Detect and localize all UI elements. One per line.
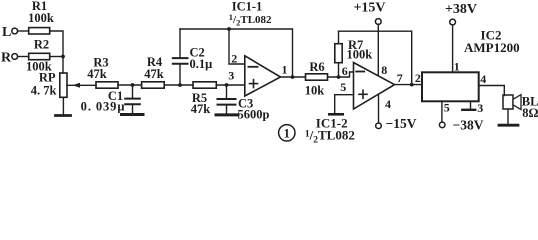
- svg-text:1: 1: [282, 62, 288, 76]
- svg-text:IC1-1: IC1-1: [232, 0, 263, 14]
- +38V terminal at pin 1: [452, 25, 454, 72]
- svg-text:1/2TL082: 1/2TL082: [305, 127, 355, 143]
- junction on rail: [227, 27, 231, 31]
- speaker BL: [503, 95, 513, 109]
- op-amp U1 (IC1-1): [245, 56, 281, 96]
- node B junction: [131, 83, 135, 87]
- node C junction: [178, 83, 182, 87]
- wire U2 output to IC2: [395, 84, 423, 86]
- svg-text:+38V: +38V: [445, 2, 477, 17]
- svg-text:5600p: 5600p: [238, 108, 270, 122]
- node A junction: [61, 55, 65, 59]
- wire R3 to node B: [118, 84, 142, 86]
- wire R5 to op-amp pin 3: [216, 84, 245, 86]
- svg-text:10k: 10k: [305, 83, 325, 97]
- ground at pin 5: [335, 95, 354, 113]
- svg-text:100k: 100k: [28, 11, 54, 25]
- circled figure number 1: [279, 125, 295, 141]
- node D junction: [225, 83, 229, 87]
- resistor R3: [96, 82, 118, 88]
- svg-text:4. 7k: 4. 7k: [31, 83, 57, 97]
- wire IC2 pin 4 to speaker: [479, 86, 505, 96]
- junction R7 node: [337, 75, 341, 79]
- svg-text:8Ω: 8Ω: [522, 106, 538, 120]
- resistor R2: [29, 53, 50, 59]
- wire R6 to pin 6: [328, 72, 354, 77]
- svg-text:5: 5: [340, 80, 346, 94]
- ground under C3: [216, 113, 238, 116]
- wire node A to RP: [62, 57, 64, 74]
- svg-text:47k: 47k: [191, 102, 211, 116]
- potentiometer RP: [60, 73, 67, 97]
- wire R to R2: [18, 56, 29, 58]
- svg-text:L: L: [2, 25, 11, 40]
- svg-text:3: 3: [228, 68, 234, 82]
- svg-text:4: 4: [480, 72, 486, 86]
- capacitor C1: [132, 85, 134, 98]
- resistor R6: [306, 74, 328, 80]
- svg-text:−15V: −15V: [386, 116, 417, 131]
- svg-text:100k: 100k: [347, 48, 373, 62]
- ground under speaker: [507, 109, 509, 123]
- capacitor C3: [226, 85, 228, 98]
- svg-text:3: 3: [477, 101, 483, 115]
- svg-text:1: 1: [284, 127, 290, 141]
- wire R1 to node A: [50, 31, 63, 57]
- svg-text:5: 5: [444, 101, 450, 115]
- op-amp U2 (IC1-2): [354, 63, 395, 110]
- svg-text:R6: R6: [309, 60, 324, 74]
- svg-text:2: 2: [415, 71, 421, 85]
- IC2 AMP1200 box: [422, 72, 479, 101]
- RP wiper arrow: [67, 84, 96, 86]
- wire L to R1: [18, 30, 29, 32]
- svg-text:R2: R2: [34, 38, 49, 52]
- resistor R5: [193, 82, 216, 88]
- wire R2 to node A: [50, 56, 63, 58]
- svg-text:4: 4: [385, 97, 391, 111]
- svg-text:6: 6: [342, 64, 348, 78]
- ground at pin 3: [470, 101, 472, 108]
- junction output node: [291, 75, 295, 79]
- svg-text:47k: 47k: [144, 67, 164, 81]
- -38V terminal at pin 5: [441, 101, 443, 122]
- -15V terminal at pin 4: [378, 95, 380, 124]
- ground under RP: [62, 97, 64, 114]
- wire U1 output to R6: [281, 76, 306, 78]
- svg-text:AMP1200: AMP1200: [464, 40, 520, 55]
- resistor R7: [338, 63, 340, 77]
- ground under C1: [122, 113, 144, 116]
- svg-text:8: 8: [381, 63, 387, 77]
- svg-text:1/2TL082: 1/2TL082: [229, 12, 272, 28]
- resistor R1: [29, 28, 50, 34]
- svg-text:2: 2: [231, 52, 237, 66]
- wire R4 to node C: [164, 84, 193, 86]
- junction feedback/output: [410, 83, 414, 87]
- resistor R4: [142, 82, 165, 88]
- feedback rail of U2: [339, 31, 412, 84]
- wire rail to pin 2: [229, 29, 245, 64]
- capacitor C2: [179, 65, 181, 85]
- svg-text:+15V: +15V: [353, 1, 385, 16]
- wire +15V to pin 8: [377, 24, 379, 76]
- svg-text:−38V: −38V: [453, 117, 484, 132]
- svg-text:R: R: [1, 50, 12, 65]
- svg-text:0. 039μ: 0. 039μ: [81, 100, 126, 114]
- feedback wire rail of U1: [180, 29, 293, 77]
- svg-text:7: 7: [397, 71, 403, 85]
- svg-text:0.1μ: 0.1μ: [190, 57, 213, 71]
- svg-text:47k: 47k: [87, 67, 107, 81]
- svg-text:1: 1: [454, 59, 460, 73]
